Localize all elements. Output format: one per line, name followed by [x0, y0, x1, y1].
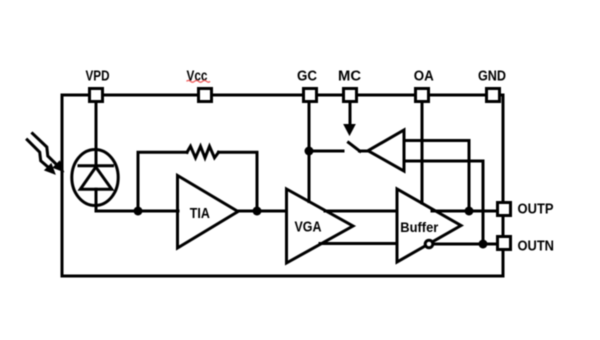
wire feedback loop right	[219, 152, 258, 211]
wire bottom border	[62, 275, 503, 278]
wire switch to AGC amp output	[360, 150, 369, 153]
pad GND	[487, 89, 500, 102]
pad MC	[344, 89, 357, 102]
wire OA pad to buffer control	[421, 103, 424, 203]
node junction OUTN line	[479, 240, 488, 249]
light arrow 2	[27, 140, 55, 174]
op-amp Buffer	[397, 189, 461, 262]
wire VPD pad to photodiode cathode	[95, 103, 98, 166]
photodiode D1	[72, 150, 118, 206]
node junction photodiode/feedback	[134, 207, 143, 216]
wire VGA to buffer bottom	[320, 242, 397, 245]
wire right border	[502, 95, 505, 276]
wire AGC amp top input from OUTP	[404, 141, 469, 212]
node junction TIA output/feedback	[253, 207, 262, 216]
svg-text:GC: GC	[297, 68, 317, 84]
pad OA	[416, 89, 429, 102]
svg-text:OUTP: OUTP	[518, 202, 554, 218]
pad OUTN	[498, 237, 511, 250]
wire buffer to OUTP pad	[432, 210, 497, 213]
wire top border	[62, 94, 503, 97]
svg-text:Vcc: Vcc	[187, 68, 208, 84]
svg-text:Buffer: Buffer	[400, 220, 439, 235]
op-amp TIA	[178, 176, 239, 249]
wire buffer bubble to OUTN pad	[434, 243, 497, 246]
svg-text:OA: OA	[414, 68, 434, 84]
node junction GC/switch	[305, 147, 314, 156]
resistor R1	[187, 146, 219, 158]
pad Vcc	[199, 89, 212, 102]
op-amp VGA	[287, 189, 354, 263]
wire left border	[61, 95, 64, 276]
svg-text:VGA: VGA	[295, 219, 322, 235]
svg-text:OUTN: OUTN	[518, 238, 555, 254]
inverter bubble on buffer output	[425, 240, 433, 248]
node junction OUTP line	[465, 207, 474, 216]
wire TIA output to VGA input	[237, 210, 286, 213]
svg-text:VPD: VPD	[86, 68, 110, 84]
wire photodiode anode to TIA input	[96, 189, 178, 211]
wire VGA to buffer top	[325, 210, 397, 213]
pad VPD	[90, 89, 103, 102]
wire GC pad to VGA gain control	[308, 103, 311, 202]
wire feedback loop left	[138, 152, 187, 211]
pad GC	[304, 89, 317, 102]
switch S1 blade	[349, 143, 361, 152]
wire switch fixed contact	[309, 150, 343, 153]
svg-text:TIA: TIA	[190, 206, 210, 222]
wire AGC amp bottom input from OUTN	[404, 161, 483, 244]
svg-text:GND: GND	[478, 68, 506, 84]
pad OUTP	[498, 203, 511, 216]
light arrow 1	[33, 134, 64, 172]
op-amp U1 AGC feedback amplifier	[368, 130, 404, 171]
svg-text:MC: MC	[338, 68, 362, 84]
MC control arrow	[344, 103, 355, 135]
red spellcheck squiggle under Vcc	[187, 80, 211, 82]
